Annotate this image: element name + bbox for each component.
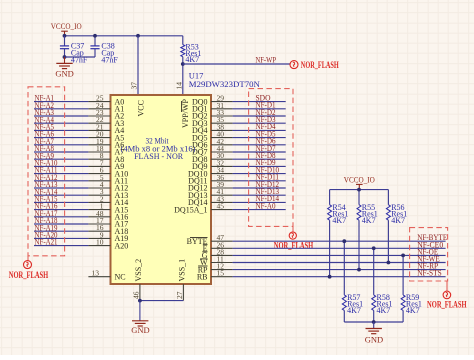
pin DQ15A_1 name: [174, 205, 207, 214]
resistor R54: [328, 203, 349, 225]
port NOR_FLASH (bottom left): [9, 256, 49, 281]
pin E stub: [211, 247, 233, 249]
pin number 23: [96, 108, 104, 117]
junction at VCCO_IO/C37: [63, 34, 67, 38]
wire net NF-A21: [34, 245, 88, 247]
wire R59 to GND rail: [402, 310, 404, 322]
svg-text:45: 45: [217, 202, 225, 211]
net label NF-D11: [256, 173, 280, 182]
wire net NF-D3: [233, 122, 286, 124]
pin DQ11 name: [188, 177, 207, 186]
svg-text:47nF: 47nF: [101, 55, 118, 64]
pin DQ7 name: [192, 148, 208, 157]
pin number 27: [175, 291, 184, 299]
svg-text:VCCO_IO: VCCO_IO: [344, 175, 375, 184]
pin DQ12 name: [188, 184, 208, 193]
pin NC name: [115, 272, 126, 281]
pin number 42: [217, 137, 225, 146]
power port VCCO_IO (right): [344, 175, 375, 189]
port NOR_FLASH (top right): [290, 61, 339, 71]
net label NF-A1: [35, 94, 55, 103]
pin W name: [200, 258, 208, 267]
pin number 8: [100, 151, 104, 160]
pin DQ5 stub: [211, 137, 233, 139]
pin DQ3 name: [192, 119, 208, 128]
wire VCCO_IO rail (top): [65, 35, 183, 37]
junction R56/NF-WE: [387, 261, 391, 265]
net label NF-A13: [35, 180, 58, 189]
net label NF-A12: [35, 173, 58, 182]
pin A12 name: [115, 184, 129, 193]
pin DQ14 stub: [211, 201, 233, 203]
pin A4 name: [115, 126, 125, 135]
blanket (data bus directive box): [249, 89, 293, 227]
pin number 47: [217, 233, 225, 242]
net label NF-A15: [35, 195, 58, 204]
resistor R57: [342, 293, 363, 315]
pin A16 stub: [88, 216, 110, 218]
wire net NF-A7: [34, 144, 88, 146]
wire net NF-A12: [34, 180, 88, 182]
pin G stub: [211, 254, 233, 256]
blanket (address bus directive box): [28, 87, 65, 256]
wire VCCO_IO rail (right): [330, 190, 389, 205]
pin number 3: [100, 187, 104, 196]
wire net NF-A15: [34, 201, 88, 203]
net label NF-A21: [35, 238, 58, 247]
pin number 46: [132, 291, 141, 299]
wire R57 to GND rail: [343, 310, 345, 322]
wire net NF-A9: [34, 158, 88, 160]
part text 32 Mbit: [146, 136, 170, 145]
junction R55/NF-RP: [357, 268, 361, 272]
capacitor C37: [60, 41, 88, 64]
wire net NF-D8: [233, 158, 286, 160]
pin A20 stub: [88, 245, 110, 247]
resistor R58: [372, 293, 393, 315]
pin number 2: [100, 194, 104, 203]
pin number 17: [96, 216, 104, 225]
wire NF-WP: [183, 63, 290, 65]
wire C37 bottom: [64, 49, 66, 57]
pin number 31: [217, 101, 225, 110]
wire net NF-WE: [233, 262, 446, 264]
junction at right rail: [357, 188, 361, 192]
net label NF-A17: [35, 209, 58, 218]
junction R59/NF-OE: [401, 254, 405, 258]
net label NF-A6: [35, 130, 55, 139]
wire VSS_1 to VSS_2: [140, 300, 184, 302]
pin A15 name: [115, 205, 129, 214]
net label NF-A20: [35, 231, 58, 240]
svg-text:M29DW323DT70N: M29DW323DT70N: [189, 79, 260, 89]
pin A1 stub: [88, 108, 110, 110]
net label NF-D5: [256, 129, 276, 138]
net label SDO: [256, 93, 271, 102]
pin DQ1 name: [192, 105, 208, 114]
junction at GND rail: [372, 320, 376, 324]
svg-text:NC: NC: [115, 272, 126, 281]
net label NF-D1: [256, 101, 276, 110]
wire R58 to GND rail: [373, 310, 375, 322]
pin DQ0 stub: [211, 101, 233, 103]
pin number 40: [217, 130, 225, 139]
part text (4Mb x8 or 2Mb x16): [121, 145, 196, 154]
pin A2 stub: [88, 115, 110, 117]
svg-text:4K7: 4K7: [377, 306, 391, 315]
svg-text:13: 13: [92, 269, 100, 278]
pin DQ4 name: [192, 126, 208, 135]
pin DQ1 stub: [211, 108, 233, 110]
pin number 32: [217, 158, 225, 167]
net label NF-CE0: [417, 240, 443, 249]
net label NF-A19: [35, 223, 58, 232]
net label NF-A7: [35, 137, 55, 146]
net label NF-D3: [256, 115, 276, 124]
pin A14 name: [115, 198, 129, 207]
pin VSS_2 name (vertical): [134, 259, 143, 282]
resistor R53: [181, 43, 202, 65]
net label NF-D2: [256, 108, 276, 117]
pin number 22: [96, 115, 104, 124]
svg-text:NF-A21: NF-A21: [35, 238, 58, 247]
wire VCC pin 37 drop: [137, 36, 139, 95]
svg-text:46: 46: [132, 291, 141, 299]
pin RB stub: [211, 276, 233, 278]
svg-text:27: 27: [175, 291, 184, 299]
svg-text:10: 10: [96, 238, 104, 247]
pin DQ6 stub: [211, 144, 233, 146]
pin A16 name: [115, 213, 129, 222]
svg-text:15: 15: [217, 269, 225, 278]
pin A3 stub: [88, 122, 110, 124]
pin A8 name: [115, 155, 125, 164]
pin DQ14 name: [188, 198, 208, 207]
pin DQ13 name: [188, 191, 208, 200]
pin NC stub: [88, 276, 110, 278]
wire net NF-A14: [34, 194, 88, 196]
svg-text:NF-STS: NF-STS: [417, 269, 442, 278]
net label NF-A14: [35, 187, 58, 196]
wire net NF-A19: [34, 230, 88, 232]
net label NF-D10: [256, 165, 280, 174]
pin DQ0 name: [192, 97, 208, 106]
pin number 38: [217, 122, 225, 131]
net label NF-A3: [35, 108, 55, 117]
wire C37 top drop: [64, 36, 66, 46]
pin DQ2 stub: [211, 115, 233, 117]
svg-text:4K7: 4K7: [406, 306, 420, 315]
pin number 6: [100, 166, 104, 175]
wire net NF-A5: [34, 129, 88, 131]
wire R56 to NF-WE: [387, 220, 389, 262]
svg-text:VCCO_IO: VCCO_IO: [51, 22, 82, 31]
wire net NF-D5: [233, 137, 286, 139]
svg-text:4K7: 4K7: [347, 306, 361, 315]
pin A7 stub: [88, 151, 110, 153]
pin number 36: [217, 173, 225, 182]
pin number 21: [96, 122, 104, 131]
pin number 10: [96, 238, 104, 247]
pin A10 name: [115, 169, 129, 178]
junction at C38 top: [93, 34, 97, 38]
net label NF-A8: [35, 144, 55, 153]
pin VSS_2 stub: [139, 284, 141, 301]
pin RP stub: [211, 269, 233, 271]
pin A9 stub: [88, 165, 110, 167]
wire C38 top drop: [94, 36, 96, 46]
svg-text:4K7: 4K7: [332, 216, 346, 225]
wire net NF-D10: [233, 173, 286, 175]
pin DQ15A_1 stub: [211, 209, 233, 211]
pin DQ9 name: [192, 162, 208, 171]
pin A0 name: [115, 97, 125, 106]
net label NF-D4: [256, 122, 276, 131]
wire net NF-D6: [233, 144, 286, 146]
pin A19 stub: [88, 237, 110, 239]
component U17 body: [111, 95, 212, 284]
wire net NF-D11: [233, 180, 286, 182]
wire net NF-A4: [34, 122, 88, 124]
pin A13 stub: [88, 194, 110, 196]
pin number 13: [92, 269, 100, 278]
pin number 48: [96, 209, 104, 218]
net label NF-D9: [256, 158, 276, 167]
svg-text:14: 14: [174, 82, 183, 90]
pin A5 stub: [88, 137, 110, 139]
svg-text:NOR_FLASH: NOR_FLASH: [9, 271, 49, 281]
wire GND rail (bottom right): [344, 321, 403, 323]
pin A11 stub: [88, 180, 110, 182]
net label NF-WP: [256, 56, 277, 65]
pin BYTE stub: [211, 240, 233, 242]
pin DQ2 name: [192, 112, 208, 121]
wire R54 to NF-STS: [329, 220, 331, 277]
svg-text:4K7: 4K7: [185, 55, 199, 64]
net label NF-D7: [256, 144, 276, 153]
pin A8 stub: [88, 158, 110, 160]
svg-text:VPP/WP: VPP/WP: [181, 99, 190, 128]
pin A19 name: [115, 234, 129, 243]
svg-text:FLASH - NOR: FLASH - NOR: [134, 152, 184, 161]
pin number 4: [100, 180, 104, 189]
net label NF-A5: [35, 123, 55, 132]
net label NF-A11: [35, 166, 58, 175]
wire net NF-A13: [34, 187, 88, 189]
pin A0 stub: [88, 101, 110, 103]
wire net NF-D14: [233, 201, 286, 203]
net label NF-STS: [417, 269, 442, 278]
net label NF-A2: [35, 101, 55, 110]
pin DQ11 stub: [211, 180, 233, 182]
net label NF-D14: [256, 194, 280, 203]
pin BYTE name: [187, 237, 208, 246]
pin number 5: [100, 173, 104, 182]
wire net SDO: [233, 101, 286, 103]
ground (below C37): [55, 57, 73, 78]
wire NF-BYTE to R57: [343, 241, 345, 295]
net label NF-OE: [417, 247, 438, 256]
wire net NF-D4: [233, 129, 286, 131]
pin DQ7 stub: [211, 151, 233, 153]
resistor R55: [357, 203, 378, 225]
pin A18 name: [115, 227, 129, 236]
net label NF-BYTE: [417, 233, 447, 242]
pin DQ8 stub: [211, 158, 233, 160]
pin G name: [202, 251, 208, 260]
wire net NF-A16: [34, 209, 88, 211]
pin number 41: [217, 187, 225, 196]
pin VSS_1 stub: [182, 284, 184, 301]
capacitor C38: [90, 41, 118, 64]
port NOR_FLASH (bottom right): [427, 281, 467, 310]
net label NF-D6: [256, 137, 276, 146]
net label NF-RP: [417, 262, 438, 271]
wire R53 bottom to pin 14: [182, 57, 184, 95]
pin A18 stub: [88, 230, 110, 232]
svg-text:37: 37: [130, 82, 139, 90]
part text FLASH - NOR: [134, 152, 184, 161]
wire NF-CE0 to R58: [373, 248, 375, 295]
pin A12 stub: [88, 187, 110, 189]
comment M29DW323DT70N: [189, 79, 260, 89]
ground (bottom right): [365, 322, 383, 344]
svg-text:NF-WP: NF-WP: [256, 56, 277, 65]
pin A9 name: [115, 162, 125, 171]
wire net NF-D9: [233, 165, 286, 167]
wire net NF-A0: [233, 209, 286, 211]
svg-text:NF-A0: NF-A0: [256, 201, 276, 210]
pin number 30: [217, 151, 225, 160]
pin number 34: [217, 166, 225, 175]
junction at R53 / NF-WP wire: [181, 62, 185, 66]
svg-text:GND: GND: [55, 68, 73, 78]
pin E name: [203, 244, 208, 253]
wire net NF-D2: [233, 115, 286, 117]
wire net NF-STS: [233, 276, 446, 278]
wire net NF-D12: [233, 187, 286, 189]
blanket (control directive box): [410, 228, 448, 281]
net label NF-A4: [35, 115, 55, 124]
pin DQ10 stub: [211, 173, 233, 175]
net label NF-A16: [35, 202, 58, 211]
pin number 9: [100, 230, 104, 239]
junction R57/NF-BYTE: [342, 239, 346, 243]
pin A13 name: [115, 191, 129, 200]
wire NF-OE to R59: [402, 255, 404, 295]
pin DQ3 stub: [211, 122, 233, 124]
wire net NF-CE0: [233, 247, 446, 249]
wire net NF-D1: [233, 108, 286, 110]
wire net NF-A8: [34, 151, 88, 153]
port NOR_FLASH (data box): [274, 226, 314, 251]
net label NF-A18: [35, 216, 58, 225]
wire net NF-A17: [34, 216, 88, 218]
pin number 14: [174, 82, 183, 90]
pin A20 name: [115, 241, 129, 250]
svg-text:A20: A20: [115, 241, 129, 250]
pin number 11: [217, 255, 224, 264]
pin A6 stub: [88, 144, 110, 146]
junction at VSS: [138, 299, 142, 303]
pin number 15: [217, 269, 225, 278]
pin A14 stub: [88, 201, 110, 203]
pin RP name: [198, 265, 208, 274]
svg-text:GND: GND: [131, 325, 149, 335]
pin number 43: [217, 194, 225, 203]
pin A17 stub: [88, 223, 110, 225]
pin A4 stub: [88, 129, 110, 131]
wire net NF-A10: [34, 165, 88, 167]
wire rail elbow down to R53: [182, 36, 184, 45]
wire net NF-D13: [233, 194, 286, 196]
pin RB name: [197, 272, 208, 281]
svg-text:NOR_FLASH: NOR_FLASH: [301, 61, 339, 71]
pin number 24: [96, 101, 104, 110]
net label NF-A9: [35, 151, 55, 160]
net label NF-D12: [256, 180, 280, 189]
pin DQ4 stub: [211, 129, 233, 131]
wire C38 bottom to C37 bottom: [65, 49, 96, 57]
pin W stub: [211, 262, 233, 264]
svg-text:VSS_2: VSS_2: [134, 259, 143, 282]
wire net NF-RP: [233, 269, 446, 271]
junction R58/NF-CE0: [372, 246, 376, 250]
pin VSS_1 name (vertical): [178, 259, 187, 282]
wire net NF-OE: [233, 254, 446, 256]
wire net NF-BYTE: [233, 240, 446, 242]
net label NF-D8: [256, 151, 276, 160]
resistor R56: [386, 203, 407, 225]
pin number 39: [217, 180, 225, 189]
pin A3 name: [115, 119, 125, 128]
pin A15 stub: [88, 209, 110, 211]
pin number 44: [217, 144, 225, 153]
wire net NF-D7: [233, 151, 286, 153]
pin number 45: [217, 202, 225, 211]
junction at VCC pin wire: [136, 34, 140, 38]
svg-text:VSS_1: VSS_1: [178, 259, 187, 282]
wire net NF-A18: [34, 223, 88, 225]
net label NF-A0: [256, 201, 276, 210]
pin A2 name: [115, 112, 125, 121]
svg-text:4K7: 4K7: [362, 216, 376, 225]
svg-text:NOR_FLASH: NOR_FLASH: [427, 300, 467, 310]
pin number 7: [100, 158, 104, 167]
svg-text:GND: GND: [365, 334, 383, 344]
svg-text:NOR_FLASH: NOR_FLASH: [274, 242, 314, 252]
svg-text:VCC: VCC: [137, 100, 146, 116]
pin number 26: [217, 240, 225, 249]
pin A7 name: [115, 148, 125, 157]
pin DQ8 name: [192, 155, 208, 164]
net label NF-A10: [35, 159, 58, 168]
wire net NF-A6: [34, 137, 88, 139]
svg-text:RB: RB: [197, 272, 208, 281]
net label NF-WE: [417, 255, 440, 264]
resistor R59: [401, 293, 422, 315]
pin number 29: [217, 94, 225, 103]
wire net NF-A3: [34, 115, 88, 117]
pin number 25: [96, 94, 104, 103]
pin number 1: [100, 202, 104, 211]
pin VPP/WP name (vertical): [181, 99, 190, 128]
net label NF-D13: [256, 187, 280, 196]
junction at C37 bottom / GND: [63, 55, 67, 59]
pin number 28: [217, 247, 225, 256]
pin number 16: [96, 223, 104, 232]
power port VCCO_IO (top left): [51, 22, 82, 36]
